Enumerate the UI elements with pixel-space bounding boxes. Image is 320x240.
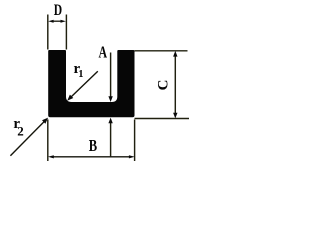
U-channel profile body <box>48 50 134 117</box>
D dimension line <box>53 20 62 22</box>
D extension line left <box>47 15 49 50</box>
r1 arrowhead at inner fillet <box>67 95 73 101</box>
D arrowhead right <box>61 20 66 23</box>
r2 arrowhead at outer bottom-left corner <box>42 118 48 124</box>
B arrowhead left <box>48 155 54 158</box>
A arrowhead up onto web bottom <box>108 118 112 124</box>
B dimension line <box>51 156 132 158</box>
C dimension line <box>174 54 176 115</box>
C arrowhead up <box>173 51 177 57</box>
B extension line right <box>134 120 136 162</box>
D arrowhead left <box>48 20 53 23</box>
C extension line top <box>135 50 188 52</box>
svg-text:A: A <box>99 42 108 61</box>
A arrowhead down onto web top <box>108 96 112 102</box>
svg-text:C: C <box>156 80 172 91</box>
A dimension line lower (tail to B line) <box>110 121 112 156</box>
svg-text:D: D <box>54 2 62 19</box>
D extension line right <box>65 15 67 50</box>
B extension line left <box>47 120 49 162</box>
B arrowhead right <box>129 155 135 158</box>
svg-text:B: B <box>89 136 97 155</box>
C extension line bottom <box>135 118 190 120</box>
r2 leader line <box>10 120 45 156</box>
C arrowhead down <box>173 113 177 119</box>
r1 leader line <box>71 71 98 97</box>
A dimension line upper <box>110 53 112 100</box>
svg-text:1: 1 <box>78 69 83 80</box>
svg-text:2: 2 <box>17 123 24 138</box>
